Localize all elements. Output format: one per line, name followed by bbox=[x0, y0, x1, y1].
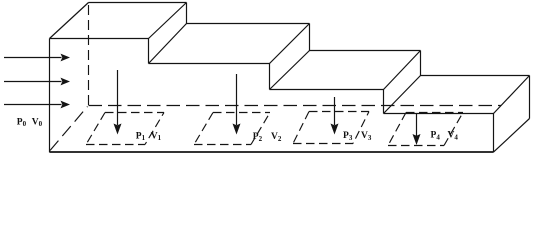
svg-text:V0: V0 bbox=[32, 117, 43, 128]
svg-text:V3: V3 bbox=[361, 131, 372, 142]
wire: hidden back-bottom long edge (dashed) bbox=[89, 105, 502, 107]
svg-text:V2: V2 bbox=[271, 132, 282, 143]
wire: hidden bottom-left depth edge (dashed) bbox=[50, 107, 88, 151]
arrow: down arrow station 3 bbox=[331, 97, 339, 135]
node: dashed parallelogram measurement station 1 bbox=[86, 113, 164, 145]
wire: step 1 back top edge bbox=[89, 2, 187, 4]
wire: step 2 front top edge bbox=[149, 63, 270, 65]
wire: step face 2-3 back vertical bbox=[309, 24, 311, 51]
node: dashed parallelogram measurement station 3 bbox=[293, 112, 369, 144]
arrow: inflow arrow top bbox=[4, 54, 70, 62]
wire: step 3 back top edge bbox=[310, 50, 421, 52]
wire: depth edge step3 right bbox=[384, 51, 421, 90]
wire: bottom front edge bbox=[50, 151, 494, 153]
wire: step 4 front top edge bbox=[384, 113, 494, 115]
wire: right front vertical edge bbox=[493, 114, 495, 153]
node: dashed parallelogram measurement station 2 bbox=[194, 113, 270, 145]
svg-text:P3: P3 bbox=[343, 131, 353, 142]
wire: step face 1-2 front vertical bbox=[148, 39, 150, 64]
arrow: down arrow station 2 bbox=[233, 74, 241, 135]
arrow: down arrow station 4 bbox=[413, 114, 421, 146]
wire: depth edge bottom of face 1-2 bbox=[149, 24, 187, 64]
wire: bottom right depth edge bbox=[494, 119, 530, 153]
arrow: inflow arrow bottom bbox=[4, 101, 70, 109]
wire: step face 3-4 front vertical bbox=[383, 90, 385, 114]
svg-text:P2: P2 bbox=[253, 132, 263, 143]
wire: step face 2-3 front vertical bbox=[269, 64, 271, 90]
wire: depth edge top-left bbox=[50, 3, 89, 39]
wire: back right vertical edge bbox=[529, 76, 531, 119]
svg-text:V1: V1 bbox=[151, 131, 162, 142]
wire: depth edge bottom of face 3-4 bbox=[384, 76, 421, 114]
svg-text:P0: P0 bbox=[17, 117, 27, 128]
wire: left front vertical edge bbox=[49, 39, 51, 153]
svg-text:P4: P4 bbox=[431, 131, 441, 142]
wire: depth edge step1 front-right to back bbox=[149, 3, 187, 39]
wire: step face 3-4 back vertical bbox=[420, 51, 422, 76]
svg-text:V4: V4 bbox=[448, 131, 459, 142]
arrow: inflow arrow middle bbox=[4, 78, 70, 86]
wire: hidden back-left vertical edge (dashed) bbox=[88, 5, 90, 105]
wire: step 2 back top edge bbox=[187, 23, 310, 25]
wire: depth edge bottom of face 2-3 bbox=[270, 51, 310, 90]
wire: depth edge step2 right bbox=[270, 24, 310, 64]
wire: step 1 front top edge bbox=[50, 38, 149, 40]
wire: step 3 front top edge bbox=[270, 89, 384, 91]
svg-text:P1: P1 bbox=[136, 131, 146, 142]
wire: step face 1-2 back vertical bbox=[186, 3, 188, 24]
node: dashed parallelogram measurement station 4 bbox=[388, 113, 463, 146]
arrow: down arrow station 1 bbox=[114, 70, 122, 135]
wire: depth edge step4 right bbox=[494, 76, 530, 114]
wire: step 4 back top edge bbox=[421, 75, 530, 77]
